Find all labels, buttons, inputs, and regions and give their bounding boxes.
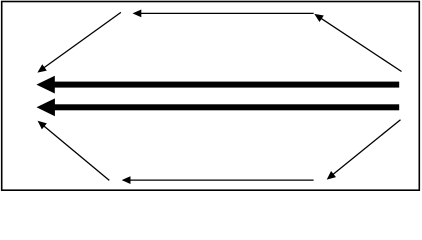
wire: top horizontal line xyxy=(134,12,314,14)
arrowhead: upper-left diagonal lower tip xyxy=(37,64,46,72)
wire: bottom horizontal line xyxy=(123,179,314,181)
frame border xyxy=(2,2,420,191)
arrowhead: lower-right diagonal lower tip xyxy=(327,171,336,180)
arrowhead: top line left tip xyxy=(133,10,142,18)
thick arrow 2 head xyxy=(37,98,55,116)
thick arrow 1 head xyxy=(36,76,54,94)
thick arrow 2 shaft xyxy=(53,104,399,110)
arrowhead: bottom line left tip xyxy=(122,176,131,184)
wire: lower-left diagonal xyxy=(40,123,109,180)
arrowhead: lower-left diagonal upper tip xyxy=(38,121,47,130)
thick arrow 1 shaft xyxy=(53,82,399,88)
arrowhead: upper-right diagonal upper tip xyxy=(314,14,323,22)
wire: upper-left diagonal xyxy=(40,12,121,70)
wire: upper-right diagonal xyxy=(317,16,402,72)
wire: lower-right diagonal xyxy=(330,120,401,178)
